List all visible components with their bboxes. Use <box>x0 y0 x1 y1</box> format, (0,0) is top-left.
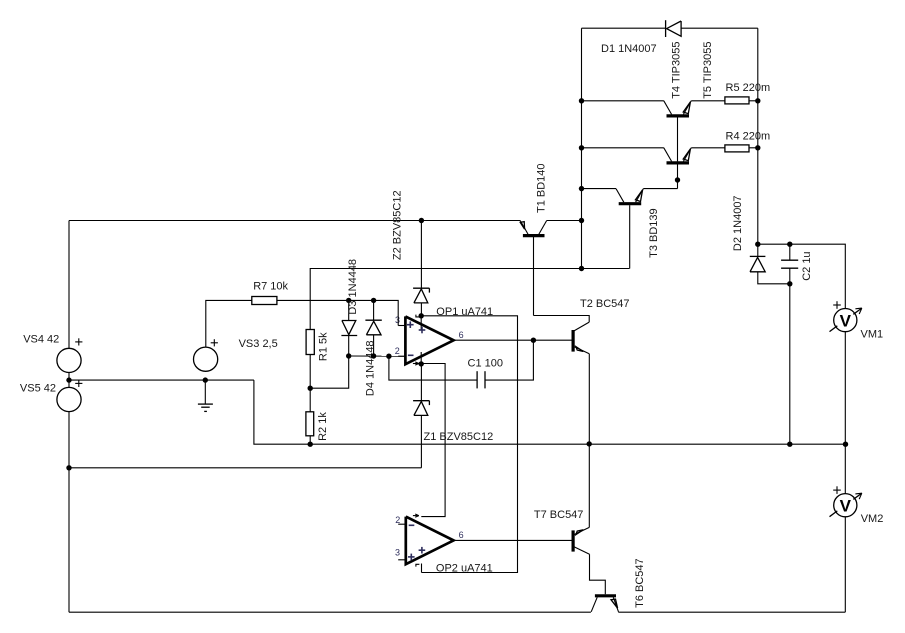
svg-text:D2 1N4007: D2 1N4007 <box>732 195 744 251</box>
transistor T2 <box>573 322 589 444</box>
wire R5 to right rail <box>749 100 758 102</box>
ground symbol <box>198 380 213 411</box>
svg-text:D3 1N4448: D3 1N4448 <box>347 259 359 315</box>
wire T4 emitter to R5 <box>691 100 725 102</box>
op-amp OP1 <box>398 316 453 364</box>
resistor R4 <box>725 145 749 152</box>
node Z2 top <box>419 218 424 223</box>
svg-text:R5 220m: R5 220m <box>726 82 771 94</box>
plus mark VM2 <box>833 489 841 491</box>
transistor T4 <box>664 101 691 162</box>
wire T1 collector to rail <box>547 220 582 222</box>
plus mark OP1 input <box>407 324 414 326</box>
node C2 top <box>787 242 792 247</box>
node rail-T5 <box>579 145 584 150</box>
wire VM2 to bottom rail <box>844 517 846 612</box>
diode D2 <box>750 244 790 284</box>
wire R2 to ground wire <box>309 436 311 444</box>
transistor T7 <box>573 444 605 594</box>
wire Z1 bottom return <box>69 467 421 469</box>
svg-text:R1 5k: R1 5k <box>317 332 329 361</box>
node rail bottom junction <box>579 266 584 271</box>
wire R4 to right rail <box>749 147 758 149</box>
zener Z2 <box>413 221 429 316</box>
svg-text:V: V <box>840 311 852 330</box>
node R1-R2 junction <box>308 386 313 391</box>
wire OP1 output to T2 base <box>454 339 573 341</box>
svg-text:T2 BC547: T2 BC547 <box>580 298 630 310</box>
wire left rail top <box>68 221 70 349</box>
node VS5 bottom junction <box>66 465 71 470</box>
svg-text:VS5 42: VS5 42 <box>20 383 56 395</box>
minus mark OP2 input <box>409 524 415 526</box>
node rail-T1 <box>579 218 584 223</box>
svg-text:VS4 42: VS4 42 <box>23 334 59 346</box>
svg-text:T7 BC547: T7 BC547 <box>534 509 584 521</box>
transistor T5 <box>664 148 691 189</box>
svg-text:D1 1N4007: D1 1N4007 <box>601 43 657 55</box>
node D2/C2 bottom <box>787 281 792 286</box>
svg-text:3: 3 <box>395 315 400 325</box>
svg-text:T6 BC547: T6 BC547 <box>634 558 646 608</box>
svg-text:T1 BD140: T1 BD140 <box>535 163 547 213</box>
node T4/T5 base junction <box>675 177 680 182</box>
wire OP1 V- to OP2 V+ riser <box>421 364 445 517</box>
node T2/T7 emitter junction <box>587 441 592 446</box>
node D3 bottom <box>346 353 351 358</box>
node D4 top <box>371 298 376 303</box>
svg-text:6: 6 <box>459 330 464 340</box>
transistor T3 <box>616 189 643 269</box>
pin arrow OP1 top <box>416 315 420 317</box>
wire T1 emitter row from left rail <box>69 220 520 222</box>
svg-text:T4 TIP3055: T4 TIP3055 <box>670 42 682 99</box>
wire left collector rail <box>581 28 583 268</box>
wire OP1 V+ to OP2 V- long riser <box>421 316 517 573</box>
node OP1 V+ <box>419 313 424 318</box>
plus mark OP2 input <box>408 556 415 558</box>
capacitor C2 <box>781 244 798 284</box>
plus mark VS3 <box>211 342 218 344</box>
plus mark OP1 supply <box>419 329 426 331</box>
plus mark VM1 <box>833 304 841 306</box>
wire R1 to R2 <box>309 355 311 412</box>
wire T4 collector row <box>582 100 664 102</box>
wire bottom rail right <box>618 611 845 613</box>
wire T5 emitter to R4 <box>691 147 725 149</box>
voltage source VS5 <box>57 387 81 411</box>
transistor T1 <box>520 221 547 316</box>
node VM junction <box>843 442 848 447</box>
node D2 top <box>755 242 760 247</box>
node rail-R5 <box>755 98 760 103</box>
node rail-R4 <box>755 145 760 150</box>
node D4 bottom <box>371 353 376 358</box>
wire VS mid to ground corner <box>69 379 254 381</box>
node VS4-VS5 midpoint <box>66 377 71 382</box>
resistor R5 <box>725 97 749 104</box>
op-amp OP2 <box>398 517 453 573</box>
wire C1 to OP1 output node <box>485 340 533 380</box>
wire D2 node to VM1 <box>758 244 846 308</box>
node rail-T3 <box>579 186 584 191</box>
wire top rail right of D1 <box>681 27 758 29</box>
svg-text:R4 220m: R4 220m <box>726 131 771 143</box>
node R2 bottom <box>308 442 313 447</box>
diode D4 <box>365 300 381 356</box>
svg-text:V: V <box>840 496 852 515</box>
svg-text:VS3 2,5: VS3 2,5 <box>239 338 278 350</box>
wire VS5 bottom rail <box>68 412 70 613</box>
pin arrow OP2 bottom <box>416 564 420 566</box>
capacitor C1 <box>477 371 485 388</box>
voltmeter VM1 <box>830 308 862 332</box>
svg-text:T3 BD139: T3 BD139 <box>648 208 660 258</box>
wire ground net long horizontal <box>254 380 846 444</box>
minus mark OP1 input <box>408 354 414 356</box>
svg-text:2: 2 <box>395 346 400 356</box>
svg-text:2: 2 <box>395 515 400 525</box>
svg-text:T5 TIP3055: T5 TIP3055 <box>702 42 714 99</box>
wire OP1 pin2 feedback via C1 <box>389 356 477 380</box>
plus mark VS4 <box>75 341 82 343</box>
wire C2 bottom to ground net <box>789 284 791 444</box>
wire T5 collector row <box>582 147 664 149</box>
svg-text:6: 6 <box>459 530 464 540</box>
pin arrow OP2 top <box>413 515 419 517</box>
wire top rail left of D1 <box>582 27 667 29</box>
node C2 bottom junction <box>787 442 792 447</box>
wire rail bottom to R1 top <box>310 269 581 330</box>
voltage source VS3 <box>194 347 218 371</box>
node VS3 ground tap <box>203 377 208 382</box>
wire VS4-VS5 gap <box>68 373 70 388</box>
wire OP2 output to T7 base <box>454 539 573 541</box>
zener Z1 <box>413 364 429 468</box>
svg-text:D4 1N4448: D4 1N4448 <box>364 340 376 396</box>
wire VS3 to R7 <box>206 300 252 347</box>
wire R7 to OP1 pin3 <box>277 300 398 325</box>
voltmeter VM2 <box>830 493 862 517</box>
transistor T6 <box>591 596 618 612</box>
svg-text:R2 1k: R2 1k <box>317 412 329 441</box>
svg-text:C2 1u: C2 1u <box>801 251 813 280</box>
wire T1 base to T2 collector <box>534 316 590 323</box>
diode D1 <box>666 20 682 37</box>
node rail-T4 <box>579 98 584 103</box>
node OP1 output <box>531 338 536 343</box>
wire VM1 to VM2 <box>844 332 846 494</box>
plus mark VS5 <box>75 382 82 384</box>
svg-text:OP2 uA741: OP2 uA741 <box>436 562 493 574</box>
svg-text:Z2 BZV85C12: Z2 BZV85C12 <box>391 190 403 260</box>
svg-text:VM2: VM2 <box>861 513 884 525</box>
node OP1 pin2 <box>386 354 391 359</box>
wire D3/D4 bottom to OP1 pin2 <box>349 355 406 357</box>
diode D3 <box>341 300 357 356</box>
wire right rail to D2/C2 node <box>757 28 759 244</box>
plus mark OP2 supply <box>419 549 426 551</box>
pin arrow OP1 bottom <box>413 363 419 365</box>
node OP1 V- <box>419 361 424 366</box>
resistor R2 <box>306 412 314 436</box>
svg-text:3: 3 <box>395 547 400 557</box>
wire rail to T3 base <box>582 188 617 190</box>
wire rail bottom to T3 collector <box>582 268 630 270</box>
svg-text:C1 100: C1 100 <box>468 357 503 369</box>
svg-text:VM1: VM1 <box>861 328 884 340</box>
node D3 top <box>346 298 351 303</box>
wire D3 bottom to R1/R2 node <box>310 356 349 388</box>
svg-text:Z1 BZV85C12: Z1 BZV85C12 <box>424 431 494 443</box>
svg-text:OP1 uA741: OP1 uA741 <box>436 306 493 318</box>
resistor R7 <box>252 297 277 305</box>
resistor R1 <box>306 330 314 355</box>
voltage source VS4 <box>57 348 81 372</box>
svg-text:R7 10k: R7 10k <box>253 280 288 292</box>
wire T3 emitter to base junction <box>643 188 677 190</box>
wire bottom rail left <box>69 611 591 613</box>
